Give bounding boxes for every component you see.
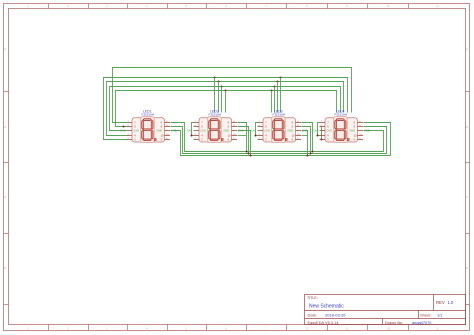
- junction: [250, 155, 252, 157]
- LED4 left vertical: [321, 127, 323, 140]
- svg-text:CAG: CAG: [201, 130, 206, 133]
- svg-text:D: D: [466, 267, 468, 270]
- svg-text:CAG: CAG: [134, 130, 139, 133]
- svg-text:Sheet:: Sheet:: [420, 313, 432, 318]
- top bus net 1: [113, 68, 352, 123]
- svg-text:GND: GND: [350, 130, 356, 133]
- svg-text:1/1: 1/1: [437, 313, 443, 318]
- svg-text:GND: GND: [364, 130, 370, 133]
- svg-text:Drawn By:: Drawn By:: [385, 320, 403, 325]
- LED3 row4 link: [302, 135, 308, 137]
- top bus net 3: [110, 87, 341, 131]
- svg-text:GND: GND: [288, 130, 294, 133]
- svg-text:CAG: CAG: [251, 130, 256, 133]
- svg-text:CAG: CAG: [313, 130, 318, 133]
- title block: [305, 295, 466, 325]
- svg-text:GND: GND: [157, 130, 163, 133]
- tap to LED3: [277, 82, 279, 113]
- bottom bus line 1: [171, 123, 384, 152]
- svg-text:EasyEDA V5.3.14: EasyEDA V5.3.14: [308, 320, 340, 325]
- left jog: [192, 123, 194, 136]
- tap to LED2: [214, 78, 216, 113]
- junction: [307, 155, 309, 157]
- junction: [280, 77, 282, 79]
- svg-text:CAG: CAG: [187, 130, 192, 133]
- tap to LED2: [218, 82, 220, 113]
- bottom bus line 3: [171, 123, 391, 156]
- svg-text:Date:: Date:: [308, 313, 318, 318]
- svg-text:GND: GND: [224, 130, 230, 133]
- LED3 drop b: [302, 127, 311, 154]
- LED3 drop c: [302, 131, 308, 156]
- svg-text:C: C: [4, 196, 6, 199]
- tap to LED2: [225, 91, 227, 113]
- junction: [221, 86, 223, 88]
- top bus net 2: [116, 91, 337, 127]
- LED2 row4 link: [238, 135, 247, 137]
- svg-text:CAG: CAG: [120, 130, 125, 133]
- LED3 drop a: [302, 123, 313, 152]
- junction: [277, 81, 279, 83]
- bottom bus line 2: [171, 127, 387, 154]
- junction: [123, 126, 125, 128]
- svg-text:TITLE:: TITLE:: [307, 296, 318, 300]
- tap to LED3: [274, 87, 276, 113]
- svg-text:2018-03-26: 2018-03-26: [325, 313, 346, 318]
- frame row ticks: [4, 92, 470, 305]
- svg-text:GND: GND: [238, 130, 244, 133]
- junction: [310, 153, 312, 155]
- 7-segment display LED3: [251, 109, 308, 142]
- svg-text:D: D: [4, 267, 6, 270]
- left jog: [256, 123, 258, 136]
- LED2 drop c: [238, 131, 251, 156]
- svg-text:REV: REV: [436, 300, 445, 305]
- 7-segment display LED2: [187, 109, 244, 142]
- top bus net 4: [107, 82, 344, 136]
- svg-text:angad7070: angad7070: [412, 320, 432, 325]
- junction: [255, 135, 257, 137]
- svg-text:New Schematic: New Schematic: [309, 303, 344, 309]
- junction: [271, 90, 273, 92]
- junction: [317, 135, 319, 137]
- 7-segment display LED1: [120, 109, 177, 142]
- junction: [312, 151, 314, 153]
- svg-text:C: C: [466, 196, 468, 199]
- svg-text:1.0: 1.0: [448, 300, 454, 305]
- LED2 drop b: [238, 127, 249, 154]
- 7-segment display LED4: [313, 109, 370, 142]
- svg-text:CAG: CAG: [265, 130, 270, 133]
- svg-text:CAG: CAG: [327, 130, 332, 133]
- junction: [191, 135, 193, 137]
- junction: [225, 90, 227, 92]
- junction: [246, 151, 248, 153]
- tap to LED3: [271, 91, 273, 113]
- junction: [321, 139, 323, 141]
- junction: [248, 153, 250, 155]
- junction: [214, 77, 216, 79]
- top bus net 5: [104, 78, 348, 140]
- LED2 drop a: [238, 123, 247, 152]
- svg-text:GND: GND: [171, 130, 177, 133]
- left jog: [318, 123, 320, 136]
- tap to LED3: [280, 78, 282, 113]
- junction: [274, 86, 276, 88]
- svg-text:GND: GND: [302, 130, 308, 133]
- tap to LED2: [221, 87, 223, 113]
- junction: [218, 81, 220, 83]
- frame column ticks: [49, 4, 409, 331]
